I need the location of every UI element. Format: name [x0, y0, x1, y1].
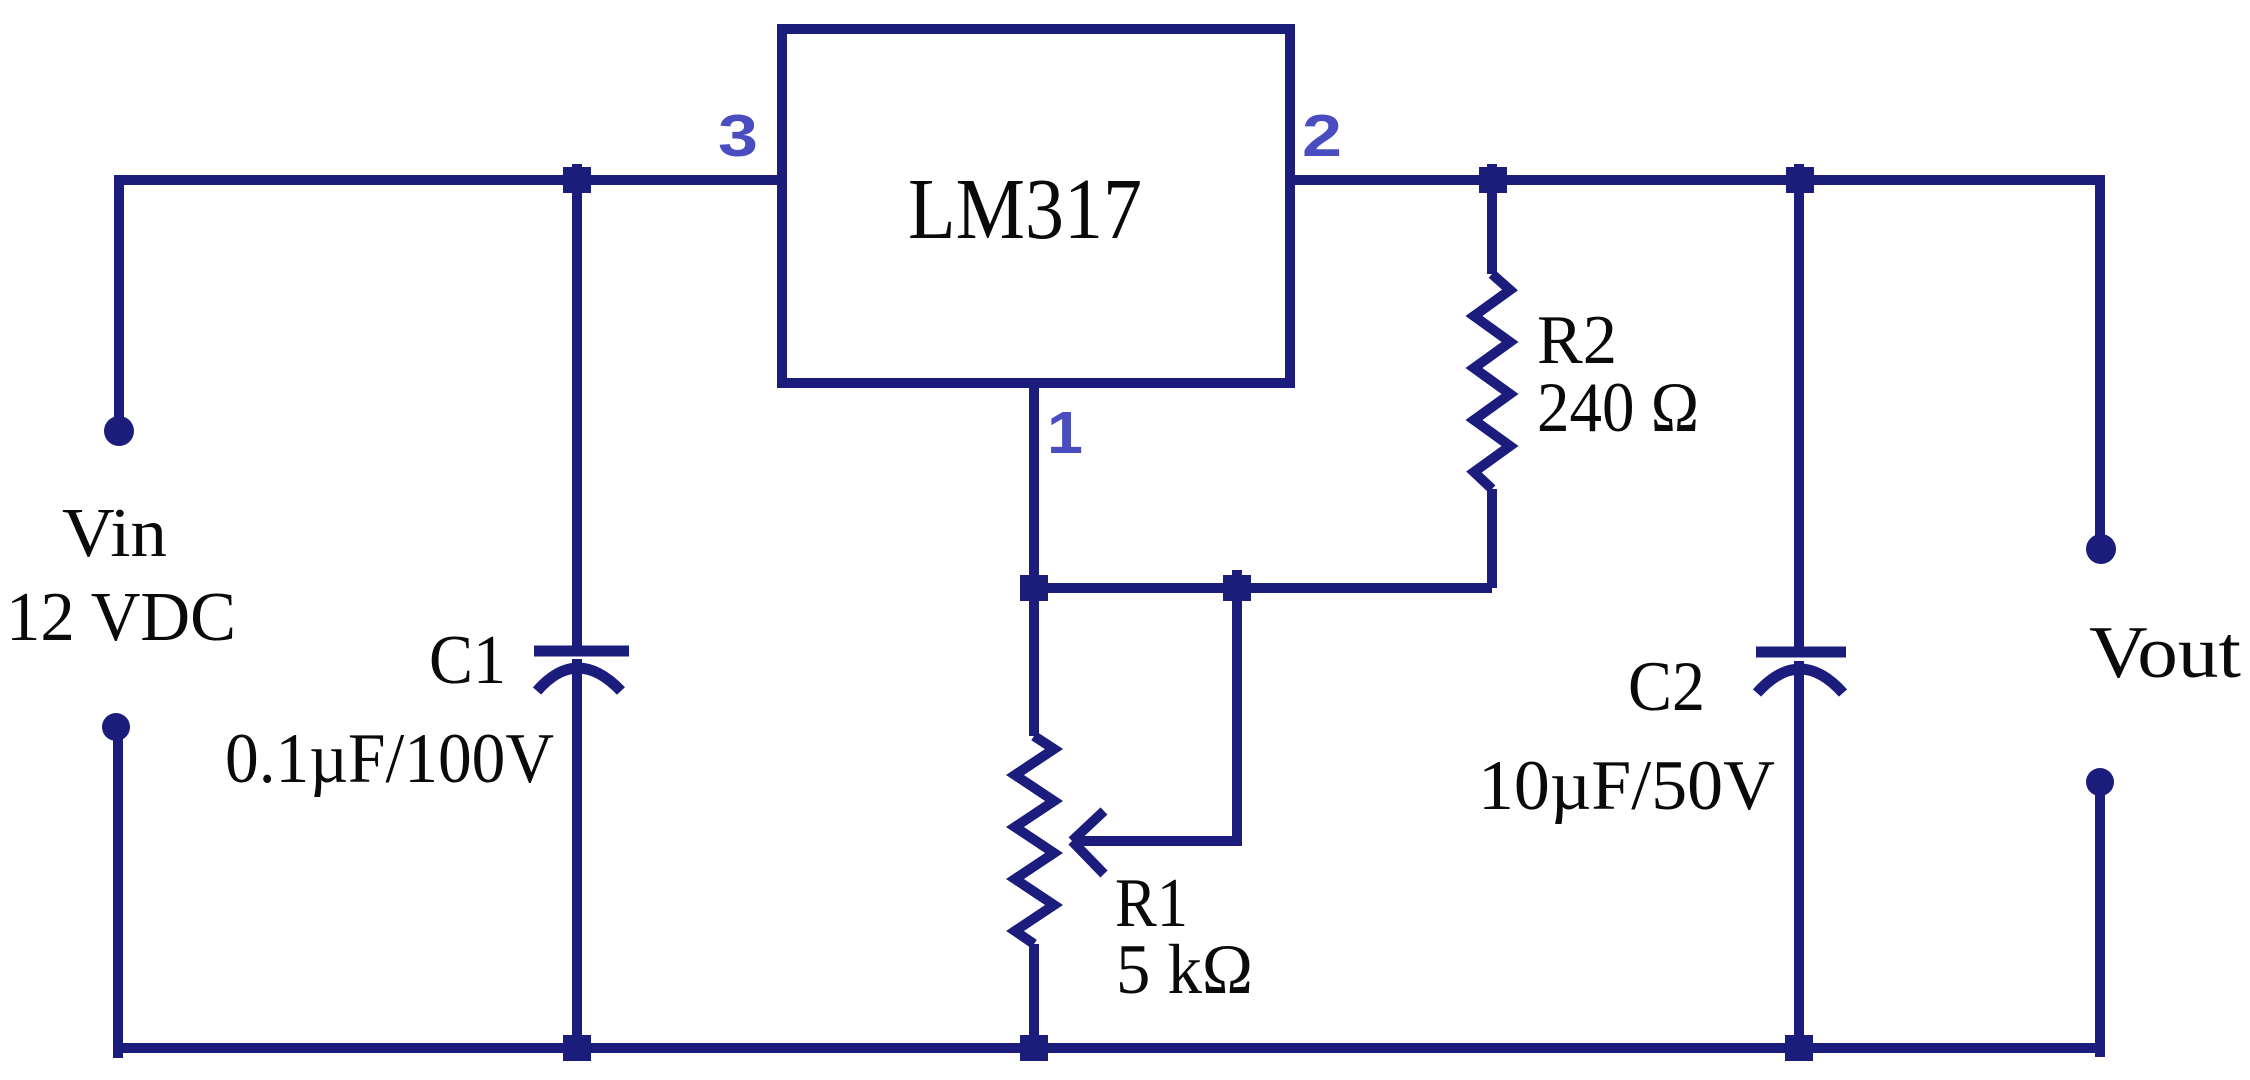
svg-text:12 VDC: 12 VDC — [6, 579, 236, 656]
svg-text:C1: C1 — [429, 622, 506, 699]
svg-text:3: 3 — [718, 103, 758, 169]
svg-text:LM317: LM317 — [908, 160, 1142, 257]
svg-text:Vin: Vin — [62, 495, 167, 572]
svg-text:C2: C2 — [1628, 648, 1705, 726]
svg-text:240 Ω: 240 Ω — [1537, 369, 1699, 447]
svg-text:10µF/50V: 10µF/50V — [1478, 747, 1775, 825]
svg-text:2: 2 — [1302, 103, 1342, 169]
svg-text:1: 1 — [1047, 400, 1083, 466]
svg-text:R2: R2 — [1537, 302, 1617, 379]
svg-text:0.1µF/100V: 0.1µF/100V — [225, 720, 554, 798]
svg-text:5 kΩ: 5 kΩ — [1116, 931, 1253, 1009]
svg-text:Vout: Vout — [2089, 612, 2241, 694]
